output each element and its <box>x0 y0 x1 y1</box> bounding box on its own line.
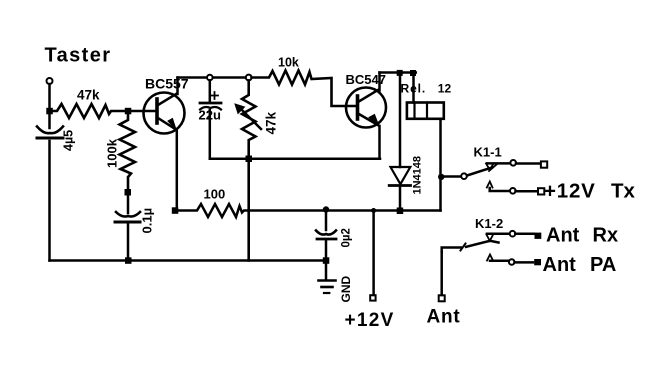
svg-text:12: 12 <box>438 82 452 96</box>
svg-text:+12V: +12V <box>345 310 395 331</box>
svg-text:10k: 10k <box>278 56 299 70</box>
svg-text:47k: 47k <box>264 111 279 134</box>
svg-text:Ant: Ant <box>546 225 580 247</box>
svg-text:PA: PA <box>590 254 616 276</box>
svg-text:4µ5: 4µ5 <box>62 130 76 151</box>
svg-text:1N4148: 1N4148 <box>412 156 424 195</box>
svg-text:47k: 47k <box>77 88 100 103</box>
svg-text:22u: 22u <box>199 108 221 123</box>
svg-text:0.1µ: 0.1µ <box>140 208 155 234</box>
svg-text:Taster: Taster <box>45 45 112 67</box>
svg-text:K1-1: K1-1 <box>474 145 502 160</box>
svg-text:0µ2: 0µ2 <box>341 228 353 247</box>
svg-text:+12V: +12V <box>544 180 596 203</box>
svg-text:BC557: BC557 <box>145 76 189 92</box>
svg-text:K1-2: K1-2 <box>475 216 503 231</box>
svg-text:Rel.: Rel. <box>401 82 427 96</box>
svg-text:BC547: BC547 <box>346 72 386 87</box>
svg-text:Ant: Ant <box>543 254 577 276</box>
svg-text:Ant: Ant <box>427 307 461 328</box>
svg-text:GND: GND <box>339 276 353 303</box>
svg-text:Tx: Tx <box>611 180 636 203</box>
svg-text:100: 100 <box>204 187 226 202</box>
svg-text:100k: 100k <box>105 138 120 168</box>
svg-text:Rx: Rx <box>593 225 619 247</box>
